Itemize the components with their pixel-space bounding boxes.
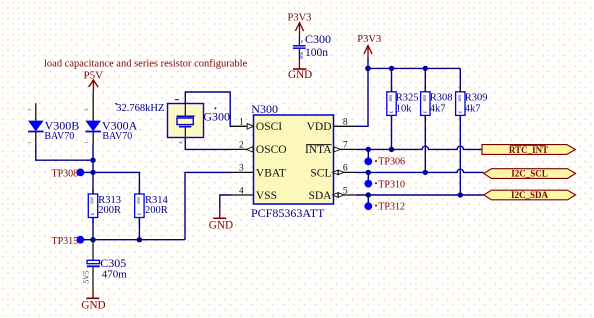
svg-text:TP312: TP312	[378, 202, 405, 213]
svg-text:BAV70: BAV70	[44, 131, 74, 142]
capacitor C305	[82, 240, 100, 289]
svg-text:600: 600	[422, 94, 427, 101]
ground (bottom)	[86, 289, 99, 298]
wire R325 top	[391, 68, 393, 91]
wire INTA row with hops	[356, 146, 482, 149]
wire VDD to rail	[356, 68, 368, 126]
svg-text:600: 600	[299, 51, 304, 59]
svg-text:8: 8	[343, 118, 348, 128]
wire TP308 row to R314	[93, 172, 139, 194]
junction rail/VDD	[365, 66, 371, 72]
pin 5 SDA	[308, 186, 356, 202]
wire SCL row with hop	[356, 169, 484, 172]
svg-text:R308: R308	[430, 93, 453, 104]
svg-text:10k: 10k	[396, 104, 413, 115]
wire VBAT to TP315 row	[185, 172, 232, 239]
wire R325 bottom to INTA row	[391, 115, 393, 149]
svg-text:INTA: INTA	[305, 144, 332, 156]
svg-text:R309: R309	[465, 93, 488, 104]
junction SDA/TP312	[366, 192, 371, 197]
power port P3V3 (top)	[295, 23, 303, 37]
junction TP315/R313/C305	[90, 237, 95, 242]
svg-text:C300: C300	[305, 32, 331, 46]
resistor R309	[456, 86, 465, 122]
svg-text:OSCO: OSCO	[256, 144, 287, 156]
crystal G300	[168, 100, 204, 144]
svg-text:600: 600	[136, 196, 141, 203]
svg-text:GND: GND	[81, 300, 105, 312]
svg-text:600: 600	[388, 94, 393, 101]
svg-text:load capacitance and series re: load capacitance and series resistor con…	[44, 59, 248, 70]
svg-text:4: 4	[239, 186, 244, 196]
ground (C300)	[293, 60, 306, 70]
svg-text:SDA: SDA	[308, 190, 332, 202]
wire R308 top	[424, 68, 426, 91]
junction SCL/TP310	[366, 170, 371, 175]
resistor R313	[88, 188, 97, 224]
svg-text:32.768kHZ: 32.768kHZ	[116, 103, 164, 114]
junction TP308	[90, 170, 95, 175]
svg-text:TP308: TP308	[52, 168, 79, 179]
svg-text:TP315: TP315	[52, 236, 79, 247]
svg-text:I2C_SDA: I2C_SDA	[511, 190, 549, 200]
svg-text:600: 600	[457, 94, 462, 101]
svg-text:SCL: SCL	[310, 167, 331, 179]
wire SDA row	[356, 194, 484, 196]
wire crystal bottom to OSCO	[185, 138, 232, 150]
wire VSS to ground	[220, 195, 232, 209]
wire R313 bottom	[92, 218, 94, 240]
test point TP310	[364, 172, 372, 187]
svg-text:RTC_INT: RTC_INT	[509, 145, 548, 155]
svg-text:200R: 200R	[145, 205, 168, 216]
svg-text:OSCI: OSCI	[256, 121, 282, 133]
pin 7 INTA	[305, 141, 356, 157]
svg-text:5V5: 5V5	[82, 270, 91, 283]
resistor R314	[135, 188, 144, 224]
svg-text:470m: 470m	[102, 268, 128, 280]
svg-text:GND: GND	[288, 69, 312, 81]
test point TP312	[364, 195, 372, 210]
svg-text:TP306: TP306	[378, 156, 405, 167]
svg-text:P5V: P5V	[84, 70, 104, 82]
pin 2 OSCO	[232, 141, 287, 157]
resistor R325	[387, 86, 396, 122]
pin 3 VBAT	[232, 164, 286, 180]
svg-text:1: 1	[239, 118, 244, 128]
diode V300B	[27, 103, 44, 144]
port I2C_SDA	[484, 190, 576, 200]
svg-text:G300: G300	[203, 109, 230, 123]
wire R308 bottom to SCL row	[424, 115, 426, 172]
svg-text:2: 2	[239, 141, 244, 151]
svg-text:200R: 200R	[98, 205, 121, 216]
pin 6 SCL	[310, 164, 356, 180]
wire R309 bottom to SDA row	[459, 115, 461, 195]
op IC N300 body	[254, 115, 334, 204]
junction INTA/R325	[389, 147, 394, 152]
test point TP306	[364, 149, 372, 165]
svg-text:I2C_SCL: I2C_SCL	[511, 169, 548, 179]
svg-text:600: 600	[89, 196, 94, 203]
junction INTA/TP306	[366, 147, 371, 152]
junction SDA/R309	[458, 192, 463, 197]
wire diode B cathode to main column	[36, 144, 93, 160]
ground (VSS)	[213, 209, 226, 219]
svg-text:GND: GND	[209, 219, 233, 231]
port RTC_INT	[482, 145, 575, 155]
wire main column diodes to R313	[92, 144, 94, 194]
svg-text:VBAT: VBAT	[256, 167, 286, 179]
svg-text:7: 7	[343, 141, 348, 151]
port I2C_SCL	[484, 169, 576, 179]
wire P3V3 rail	[368, 67, 460, 69]
svg-text:VDD: VDD	[307, 121, 332, 133]
junction diode join	[90, 158, 95, 163]
svg-text:PCF85363ATT: PCF85363ATT	[251, 206, 325, 220]
svg-text:4k7: 4k7	[465, 104, 481, 115]
svg-text:3: 3	[239, 164, 244, 174]
svg-text:4k7: 4k7	[430, 104, 446, 115]
wire R314 bottom	[138, 218, 140, 240]
svg-text:P3V3: P3V3	[288, 13, 312, 24]
junction SCL/R308	[423, 170, 428, 175]
wire R309 top	[459, 68, 461, 91]
test point TP308	[77, 169, 93, 177]
svg-text:R314: R314	[145, 195, 169, 206]
svg-text:P3V3: P3V3	[357, 34, 381, 45]
pin 4 VSS	[232, 186, 277, 202]
wire TP315 row	[93, 239, 185, 241]
svg-text:100n: 100n	[305, 47, 328, 59]
capacitor C300	[293, 37, 306, 60]
svg-text:VSS: VSS	[256, 190, 277, 202]
power port P5V	[89, 80, 98, 92]
svg-text:R313: R313	[98, 195, 121, 206]
pin 8 VDD	[307, 118, 356, 134]
svg-text:N300: N300	[251, 102, 278, 116]
junction rail/R325	[389, 66, 394, 71]
test point TP315	[77, 236, 93, 244]
wire crystal top to OSCI	[185, 92, 232, 126]
junction R314 bottom	[137, 237, 142, 242]
svg-text:TP310: TP310	[378, 179, 405, 190]
junction rail/R308	[423, 66, 428, 71]
pin 1 OSCI	[232, 118, 282, 134]
diode V300A	[84, 92, 101, 144]
svg-text:R325: R325	[396, 93, 419, 104]
svg-text:BAV70: BAV70	[102, 131, 132, 142]
power port P3V3 (rail)	[364, 46, 372, 59]
resistor R308	[421, 86, 430, 122]
